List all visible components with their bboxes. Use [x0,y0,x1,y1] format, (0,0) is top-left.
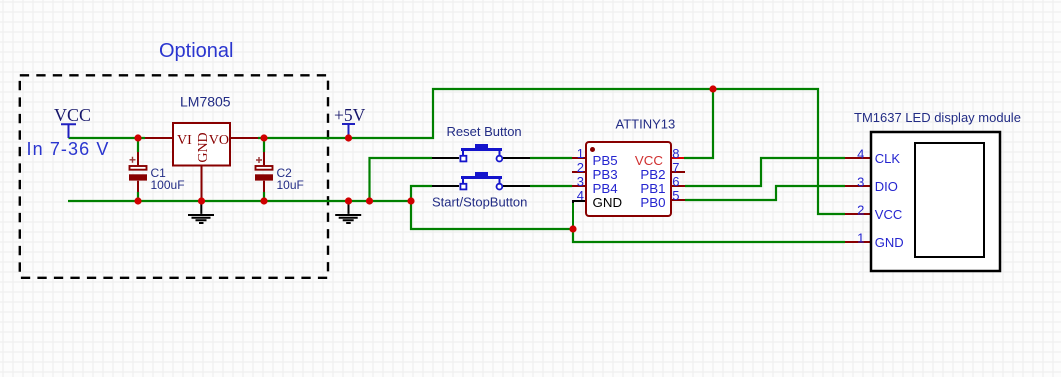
svg-text:7: 7 [672,160,679,175]
svg-text:CLK: CLK [875,151,901,166]
svg-text:VCC: VCC [875,207,902,222]
svg-text:VI: VI [177,133,192,148]
svg-text:GND: GND [593,195,623,210]
svg-text:PB1: PB1 [640,181,665,196]
svg-text:DIO: DIO [875,179,898,194]
svg-text:+5V: +5V [334,105,366,125]
svg-text:2: 2 [857,202,864,217]
svg-text:In 7-36 V: In 7-36 V [27,139,110,159]
svg-text:Reset Button: Reset Button [447,124,522,139]
svg-text:PB3: PB3 [593,167,618,182]
svg-text:Optional: Optional [159,40,234,62]
svg-text:Start/StopButton: Start/StopButton [432,195,527,210]
svg-text:VCC: VCC [54,105,91,125]
svg-text:6: 6 [672,174,679,189]
svg-text:VO: VO [209,133,229,148]
svg-text:PB4: PB4 [593,181,618,196]
svg-text:8: 8 [672,146,679,161]
svg-text:3: 3 [857,174,864,189]
svg-text:5: 5 [672,188,679,203]
svg-text:3: 3 [577,174,584,189]
svg-text:PB0: PB0 [640,195,665,210]
svg-text:10uF: 10uF [277,178,304,192]
svg-text:VCC: VCC [635,153,663,168]
svg-text:4: 4 [577,188,584,203]
svg-text:2: 2 [577,160,584,175]
svg-text:1: 1 [577,146,584,161]
svg-text:PB5: PB5 [593,153,618,168]
svg-text:ATTINY13: ATTINY13 [616,117,676,132]
svg-text:LM7805: LM7805 [180,94,231,110]
svg-text:TM1637 LED display module: TM1637 LED display module [854,110,1021,125]
svg-text:PB2: PB2 [640,167,665,182]
svg-text:100uF: 100uF [151,178,185,192]
svg-text:4: 4 [857,146,864,161]
svg-text:1: 1 [857,230,864,245]
svg-text:GND: GND [196,132,211,162]
svg-text:GND: GND [875,235,904,250]
